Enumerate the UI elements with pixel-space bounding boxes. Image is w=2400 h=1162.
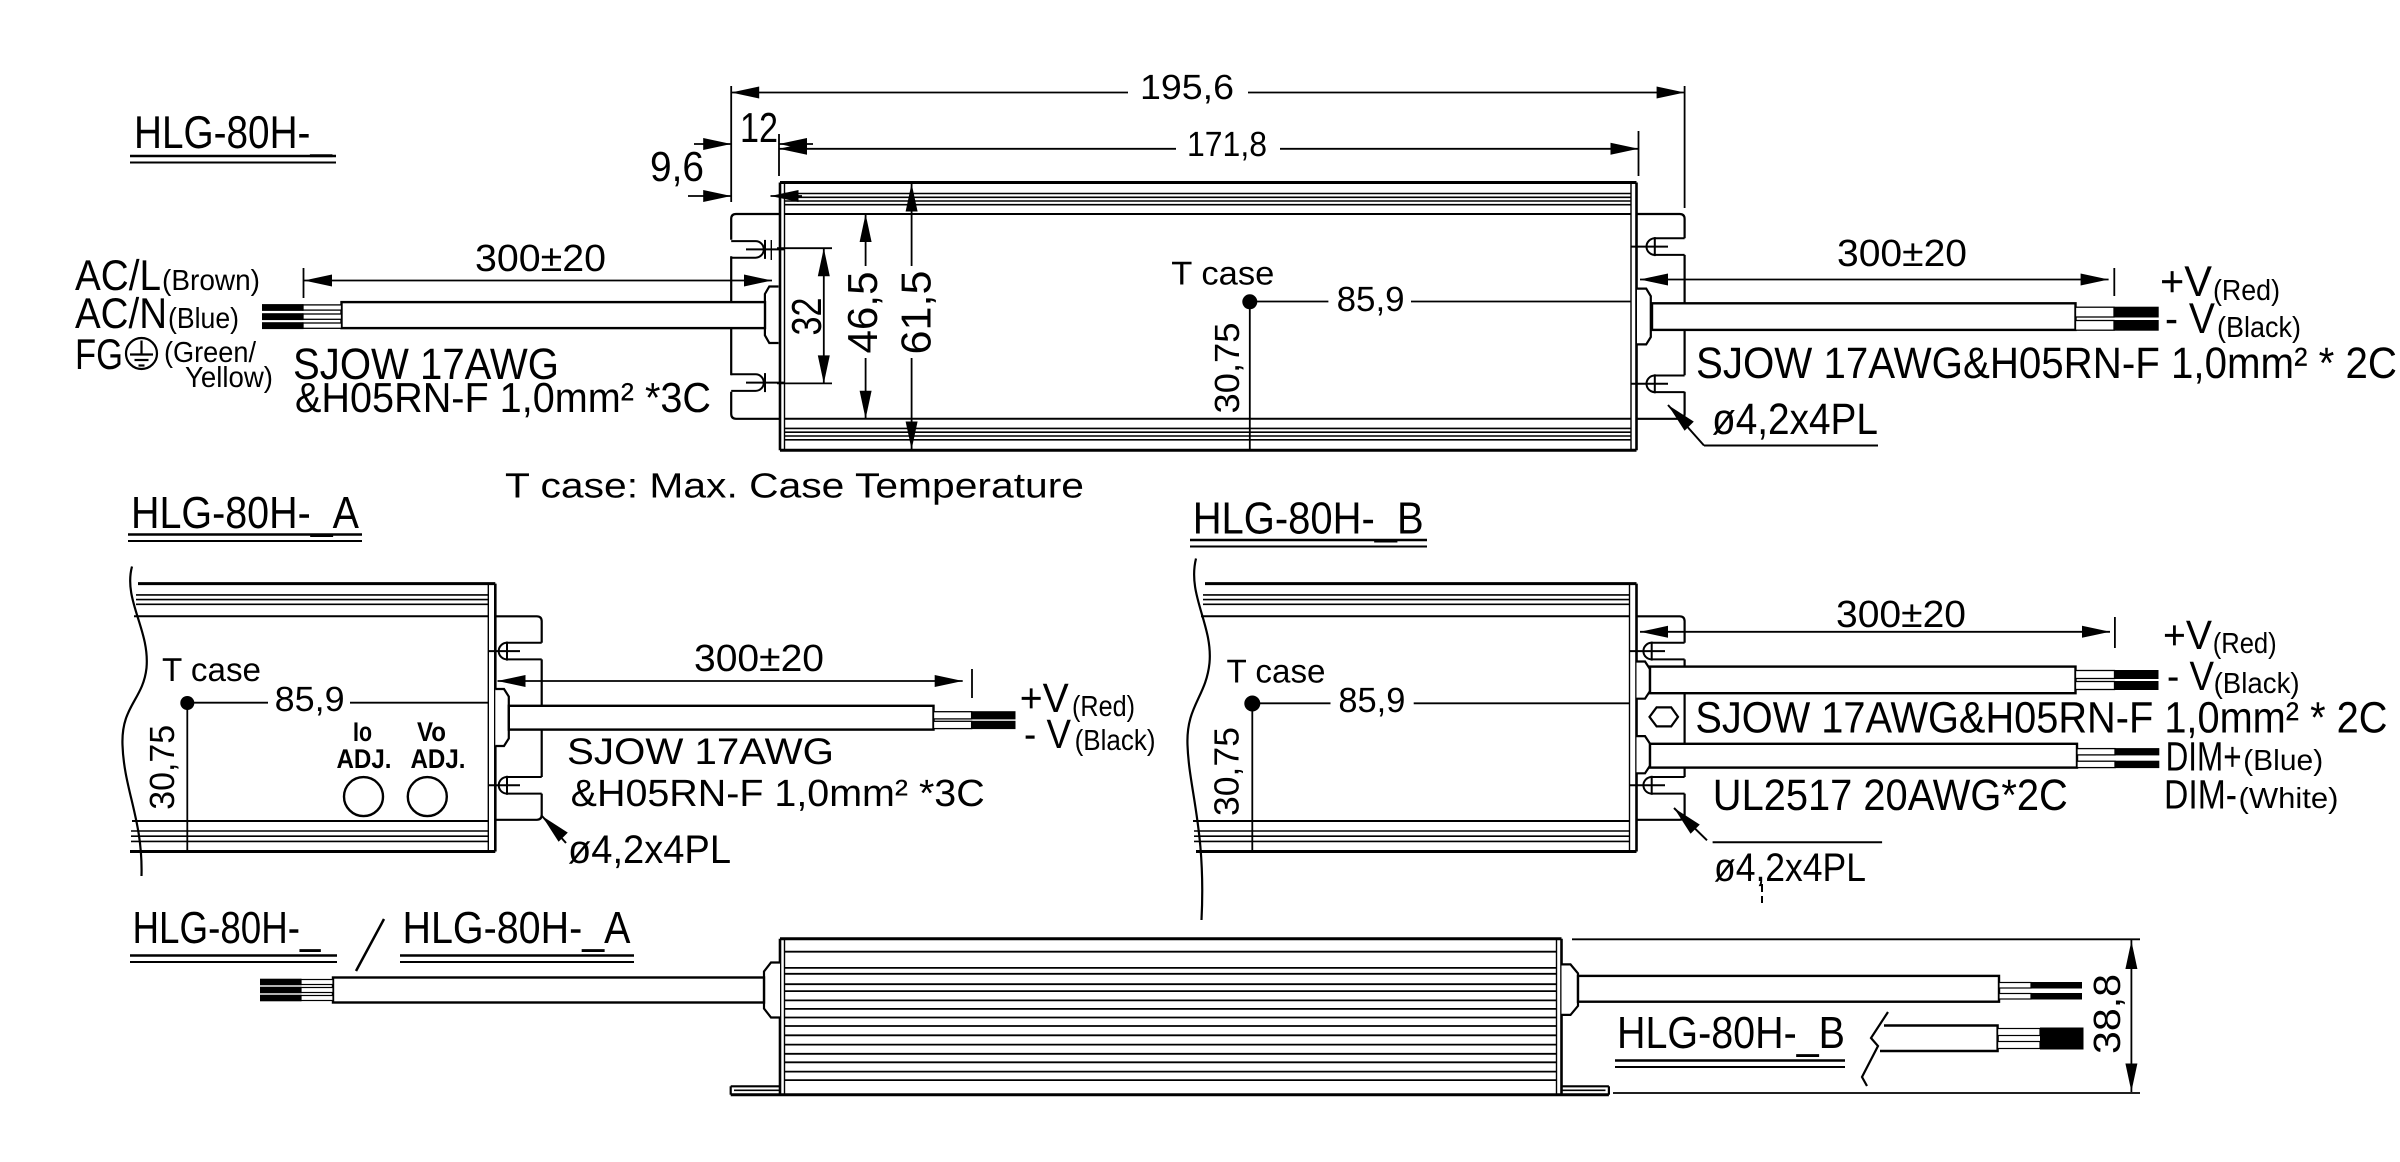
label underline (side view B): [1615, 1059, 1845, 1062]
mounting bracket (B view): [1637, 616, 1685, 820]
svg-text:ADJ.: ADJ.: [337, 744, 392, 774]
dimension 195,6 line and arrows: [731, 92, 1128, 94]
left bracket mounting slot (upper) with screw mark: [731, 240, 755, 242]
centerline dashes below ø4,2x4PL (B view): [1761, 884, 1763, 892]
break symbol (DIM cable side view): [1862, 1012, 1888, 1086]
leader line for 4.2mm holes (B view): [1674, 808, 1700, 834]
svg-text:HLG-80H-_: HLG-80H-_: [133, 902, 322, 953]
svg-text:30,75: 30,75: [1208, 323, 1247, 414]
svg-text:171,8: 171,8: [1187, 125, 1267, 164]
break line (A view left edge): [122, 567, 146, 877]
T case measurement point (B view): [1244, 696, 1260, 712]
DIM cable (B view): [1650, 744, 2077, 768]
svg-text:(Black): (Black): [1075, 725, 1156, 757]
output cable (B view): [1650, 667, 2076, 694]
svg-text:(Red): (Red): [1072, 691, 1135, 723]
dimension 38,8 line and arrows: [2130, 940, 2132, 1092]
output cable gland (side view): [1562, 964, 1579, 1015]
svg-text:T case: T case: [1171, 254, 1274, 291]
output cable gland (B view): [1637, 662, 1651, 699]
svg-text:UL2517 20AWG*2C: UL2517 20AWG*2C: [1713, 771, 2068, 820]
title underline HLG-80H-_B: [1190, 539, 1427, 542]
right bracket mounting slot (lower) with screw mark: [1655, 375, 1685, 377]
svg-text:85,9: 85,9: [1338, 681, 1405, 720]
output cable gland (A view): [495, 689, 509, 746]
dimension 30,75 line (A view): [186, 709, 188, 852]
svg-text:9,6: 9,6: [650, 143, 704, 190]
left bracket mounting slot (lower) with screw mark: [731, 373, 755, 375]
svg-text:30,75: 30,75: [143, 725, 182, 810]
leader line for 4.2mm holes (A view): [542, 816, 568, 842]
DIM wire strands (side view): [1998, 1029, 2040, 1036]
right mounting bracket outline: [1637, 214, 1685, 419]
output cable (A view): [509, 706, 934, 730]
svg-text:(Red): (Red): [2213, 275, 2280, 307]
dimension 12 line and arrows: [694, 143, 731, 145]
AC input wire strands (stripped leads): [303, 305, 342, 310]
dimension 85,9 line (A view): [194, 702, 269, 704]
DC output wire strands (stripped leads): [2076, 307, 2115, 317]
svg-text:85,9: 85,9: [275, 680, 345, 719]
svg-text:85,9: 85,9: [1337, 280, 1405, 319]
title underline HLG-80H-_: [130, 155, 336, 158]
case top fin lines (top view): [785, 193, 1632, 195]
leader line for 4.2mm holes (top view): [1668, 405, 1694, 431]
title underline HLG-80H-_A: [128, 533, 362, 536]
svg-text:&H05RN-F 1,0mm² *3C: &H05RN-F 1,0mm² *3C: [571, 773, 985, 815]
svg-text:195,6: 195,6: [1140, 68, 1234, 107]
bracket slot lower (A view): [507, 776, 542, 778]
bracket slot lower (B view): [1652, 776, 1685, 778]
dimension 38,8 extension lines: [1572, 938, 2140, 940]
output wire strands (B view): [2076, 671, 2115, 679]
slash separator: [356, 919, 384, 971]
svg-text:HLG-80H-_B: HLG-80H-_B: [1617, 1007, 1845, 1058]
svg-text:- V: - V: [2165, 295, 2215, 343]
AC input cable gland (left): [765, 287, 779, 344]
DIM wire strands (B view): [2077, 749, 2115, 755]
svg-text:ADJ.: ADJ.: [411, 744, 466, 774]
dimension 30,75 line (top view): [1249, 308, 1251, 450]
T case measurement point (A view): [180, 696, 194, 710]
svg-text:&H05RN-F 1,0mm² *3C: &H05RN-F 1,0mm² *3C: [295, 374, 711, 421]
output wire strands (side view): [1999, 983, 2031, 989]
DC output cable gland (right): [1637, 289, 1651, 345]
dimension 300±20 (input cable) line and arrows: [303, 268, 305, 298]
input cable (side view): [333, 978, 764, 1003]
svg-text:FG: FG: [75, 331, 123, 379]
svg-text:(Blue): (Blue): [168, 303, 239, 335]
input wire strands (side view): [301, 980, 333, 985]
svg-text:HLG-80H-_A: HLG-80H-_A: [403, 902, 631, 953]
bracket slot upper (A view): [507, 642, 542, 644]
svg-text:ø4,2x4PL: ø4,2x4PL: [1714, 846, 1866, 890]
svg-text:DIM-: DIM-: [2164, 772, 2237, 818]
break line (B view left edge): [1187, 559, 1209, 921]
dimension 32 line and arrows: [823, 248, 825, 383]
DIM cable gland (B view): [1637, 736, 1651, 773]
case lines (A view): [138, 582, 495, 585]
DIM cable (side view): [1880, 1026, 1998, 1052]
svg-text:- V: - V: [1024, 711, 1072, 757]
svg-text:61,5: 61,5: [893, 271, 940, 355]
mounting bracket right (side view): [1562, 1085, 1609, 1087]
svg-text:SJOW 17AWG&H05RN-F 1,0mm² * 2C: SJOW 17AWG&H05RN-F 1,0mm² * 2C: [1695, 694, 2387, 743]
mounting bracket left (side view): [731, 1085, 780, 1087]
dimension 85,9 line (top view): [1256, 301, 1328, 303]
case lines (B view): [1205, 582, 1637, 585]
dimension 300±20 (output cable) line and arrows: [2113, 268, 2115, 296]
label underline (side view left): [130, 954, 337, 957]
dimension 85,9 line (B view): [1259, 702, 1331, 704]
input cable gland (side view): [764, 963, 780, 1018]
svg-text:Vo: Vo: [417, 717, 446, 747]
svg-text:T case: Max. Case Temperature: T case: Max. Case Temperature: [505, 467, 1084, 506]
vent hole (B view): [1650, 707, 1679, 726]
case bottom fin lines (top view): [785, 427, 1632, 429]
left mounting bracket outline: [731, 214, 780, 419]
svg-text:(Red): (Red): [2213, 628, 2277, 660]
dimension 61,5 line and arrows: [911, 183, 913, 267]
case body outline (top view): [780, 181, 1637, 184]
svg-text:46,5: 46,5: [839, 272, 886, 354]
svg-text:HLG-80H-_: HLG-80H-_: [134, 106, 333, 158]
mounting bracket (A view): [495, 616, 541, 820]
bracket slot upper (B view): [1652, 642, 1685, 644]
case outline (side view): [780, 937, 1562, 940]
T case measurement point (top view): [1242, 294, 1257, 309]
svg-text:12: 12: [740, 104, 778, 151]
protective earth symbol: [126, 338, 157, 369]
svg-text:HLG-80H-_A: HLG-80H-_A: [131, 487, 359, 538]
svg-text:+V: +V: [2163, 612, 2213, 658]
svg-text:300±20: 300±20: [1836, 594, 1966, 636]
svg-text:SJOW 17AWG&H05RN-F 1,0mm² * 2C: SJOW 17AWG&H05RN-F 1,0mm² * 2C: [1696, 339, 2397, 388]
svg-text:Io: Io: [353, 717, 372, 747]
DC output cable (right): [1652, 303, 2076, 330]
svg-text:Yellow): Yellow): [185, 362, 273, 394]
Io ADJ potentiometer circle: [344, 777, 383, 816]
svg-text:(Blue): (Blue): [2243, 745, 2323, 777]
svg-text:HLG-80H-_B: HLG-80H-_B: [1193, 492, 1424, 543]
output cable (side view): [1578, 976, 1999, 1002]
AC input cable (left): [342, 302, 766, 328]
svg-text:300±20: 300±20: [475, 238, 606, 280]
dimension 30,75 line (B view): [1251, 710, 1253, 852]
heatsink fin lines (side view): [785, 951, 1557, 953]
svg-text:T case: T case: [1227, 653, 1326, 690]
svg-text:ø4,2x4PL: ø4,2x4PL: [1712, 395, 1878, 444]
svg-text:- V: - V: [2167, 653, 2215, 699]
svg-text:300±20: 300±20: [694, 638, 824, 680]
dimension 300±20 (A view) line and arrows: [971, 669, 973, 698]
Vo ADJ potentiometer circle: [408, 777, 447, 816]
svg-text:T case: T case: [162, 651, 261, 688]
svg-text:300±20: 300±20: [1837, 233, 1967, 275]
dimension 46,5 line and arrows: [865, 214, 867, 266]
output wire strands (A view): [934, 712, 972, 719]
right bracket mounting slot (upper) with screw mark: [1655, 237, 1685, 239]
svg-text:32: 32: [783, 298, 830, 336]
svg-text:SJOW 17AWG: SJOW 17AWG: [567, 731, 834, 772]
dimension 32 extension lines: [777, 247, 832, 249]
dimension 171,8 line and arrows: [779, 148, 1176, 150]
svg-text:(Brown): (Brown): [162, 265, 260, 297]
svg-text:ø4,2x4PL: ø4,2x4PL: [568, 828, 731, 872]
svg-text:(White): (White): [2239, 783, 2339, 815]
dimension 171,8 extension lines: [778, 134, 780, 176]
dimension 300±20 (B view) line and arrows: [2114, 617, 2116, 648]
label underline (side view A): [400, 954, 634, 957]
dimension 195,6 extension lines: [730, 86, 732, 202]
svg-text:38,8: 38,8: [2087, 974, 2129, 1054]
svg-text:30,75: 30,75: [1208, 727, 1247, 816]
dimension 9,6 line and arrows: [688, 195, 731, 197]
